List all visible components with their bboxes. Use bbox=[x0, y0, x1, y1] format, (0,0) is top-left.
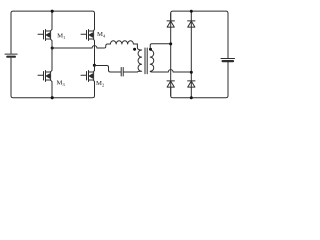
diode D1 (leg1 upper) bbox=[167, 21, 174, 27]
battery V1 (input source) bbox=[5, 54, 17, 57]
node A junction dot (left leg midpoint) bbox=[51, 46, 54, 49]
transistor Q M4 (high-side right) bbox=[81, 29, 95, 40]
diode D2 (leg2 upper) bbox=[188, 21, 195, 27]
wire: M2 drain from node B bbox=[94, 66, 96, 71]
wire: M1 source to node A bbox=[51, 41, 53, 48]
wire: bridge leg 1 vertical bbox=[170, 13, 172, 95]
wire: input bottom rail (battery - to M3/M2 sources) bbox=[11, 58, 95, 97]
wire: output bridge top rail bbox=[171, 11, 228, 58]
wire: node A to inductor (hops over right leg) bbox=[52, 44, 110, 48]
transistor Q M2 (low-side right) bbox=[81, 70, 95, 81]
svg-text:M2: M2 bbox=[96, 80, 104, 87]
svg-text:M4: M4 bbox=[97, 31, 106, 38]
battery V2 (output) bbox=[221, 59, 235, 62]
wire: M3 source to bottom rail bbox=[51, 82, 53, 98]
wire: M4 source to node B bbox=[94, 41, 96, 66]
diode D3 (leg1 lower) bbox=[167, 81, 174, 87]
inductor L1 bbox=[110, 41, 133, 44]
junction dot (bottom rail / M3 source) bbox=[51, 96, 54, 99]
junction dot (secondary bottom / leg2 midpoint) bbox=[190, 71, 193, 74]
junction dot (secondary top / leg1 midpoint) bbox=[169, 42, 172, 45]
node A junction dot (top rail / M1 drain) bbox=[51, 10, 54, 13]
wire: input top rail (battery + to M1/M4 drains) bbox=[11, 11, 95, 53]
wire: M2 source to bottom rail bbox=[94, 82, 96, 96]
junction dot (top rail / leg2) bbox=[190, 10, 193, 13]
svg-text:M1: M1 bbox=[57, 33, 65, 40]
svg-text:M3: M3 bbox=[57, 80, 66, 87]
node B junction dot (right leg midpoint) bbox=[93, 64, 96, 67]
wire: output bridge bottom rail bbox=[171, 62, 228, 98]
transformer T1 secondary winding (top lead to bridge leg 1) bbox=[150, 44, 171, 72]
diode D4 (leg2 lower) bbox=[188, 81, 195, 87]
capacitor C1 (series blocking) bbox=[121, 68, 123, 77]
transistor Q M1 (high-side left) bbox=[38, 29, 52, 40]
wire: node B down to series capacitor bbox=[95, 66, 121, 73]
wire: inductor to transformer primary top bbox=[133, 43, 137, 45]
wire: secondary bottom to bridge leg 2 (hops over leg 1) bbox=[152, 70, 191, 72]
transformer T1 primary winding bbox=[137, 44, 141, 72]
wire: bridge leg 2 vertical bbox=[190, 11, 192, 98]
wire: M3 drain from node A bbox=[51, 48, 53, 70]
wire: capacitor to transformer primary bottom bbox=[124, 71, 138, 73]
junction dot (bottom rail / leg2) bbox=[190, 96, 193, 99]
transformer T1 primary polarity dot bbox=[133, 48, 136, 51]
transformer T1 core bbox=[145, 48, 147, 74]
transistor Q M3 (low-side left) bbox=[38, 70, 52, 81]
transformer T1 secondary polarity dot bbox=[149, 48, 152, 51]
wire: M1 drain leg bbox=[51, 11, 53, 29]
